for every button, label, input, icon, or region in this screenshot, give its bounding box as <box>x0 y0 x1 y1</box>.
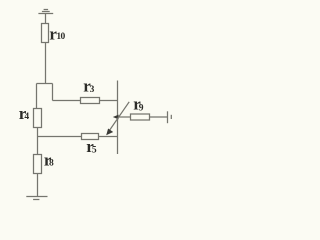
resistor R3 <box>81 98 100 104</box>
wire <box>150 116 168 118</box>
wire <box>36 84 38 109</box>
wire (wiper arrow) <box>106 102 129 135</box>
resistor R4 <box>34 109 42 128</box>
ground (bottom earth symbol) <box>26 197 47 200</box>
wire <box>37 174 39 197</box>
svg-text:9: 9 <box>139 103 144 113</box>
wire <box>52 84 54 101</box>
wire (arrow into node) <box>113 115 119 120</box>
resistor R9 <box>131 114 150 120</box>
resistor R5 <box>82 134 99 140</box>
resistor R8 <box>34 155 42 174</box>
wire <box>38 136 82 138</box>
wire <box>45 14 47 24</box>
wire <box>37 83 53 85</box>
svg-text:8: 8 <box>49 159 54 169</box>
wire <box>37 128 39 155</box>
resistor R10 <box>42 24 49 43</box>
wire <box>100 100 118 102</box>
wire (vertical bus) <box>117 81 119 155</box>
ground (top earth symbol) <box>38 10 53 14</box>
svg-text:4: 4 <box>24 112 29 122</box>
wire <box>118 116 131 118</box>
wire <box>45 43 47 84</box>
terminal <box>168 111 172 123</box>
wire <box>53 100 81 102</box>
wire <box>99 136 118 138</box>
svg-text:5: 5 <box>92 146 97 156</box>
svg-text:10: 10 <box>56 32 65 42</box>
svg-text:3: 3 <box>90 85 95 95</box>
